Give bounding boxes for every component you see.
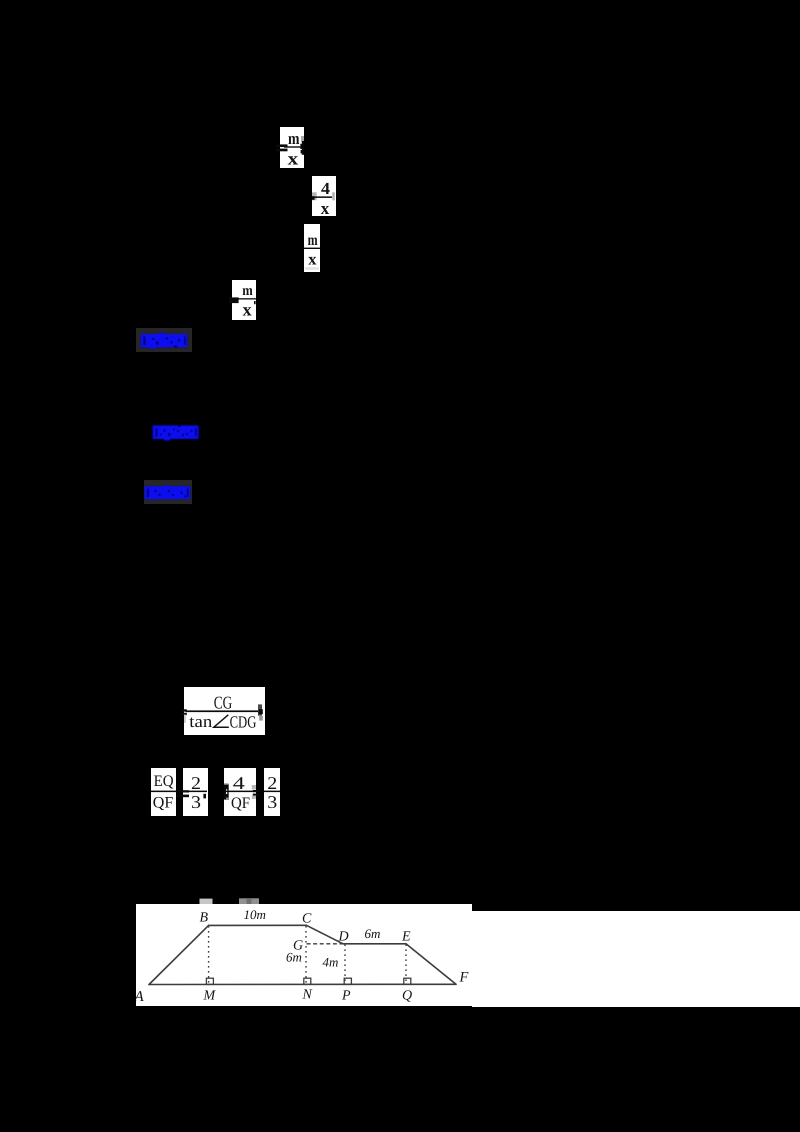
- svg-text:2: 2: [191, 773, 201, 793]
- fraction 2 side antialias marks: [312, 192, 317, 200]
- slant E-F: [406, 944, 456, 985]
- fraction 2 left black mark: [312, 196, 315, 200]
- fraction 1 bar: [284, 146, 303, 147]
- svg-text:F: F: [459, 970, 469, 986]
- fraction 1 right clipped glyph: [301, 136, 304, 142]
- svg-text:m: m: [308, 232, 319, 249]
- fraction 3 bar: [304, 248, 320, 249]
- fraction m/x (4) white box: [232, 280, 256, 320]
- fraction 4/x (2) white box: [312, 176, 336, 216]
- svg-text:Q: Q: [402, 989, 412, 1004]
- fraction m/x (3) white box: [304, 224, 320, 272]
- svg-text:EQ: EQ: [154, 773, 174, 790]
- svg-text:B: B: [200, 911, 209, 926]
- dark clipped glyph right edge of CG box: [258, 704, 262, 715]
- EQ/QF bar: [151, 791, 176, 793]
- right angle square at P: [344, 978, 351, 984]
- svg-text:QF: QF: [231, 795, 250, 812]
- svg-text:3: 3: [191, 792, 201, 812]
- light gray mark left edge below bar: [184, 715, 186, 723]
- svg-text:6m: 6m: [286, 950, 302, 965]
- fraction 1: equals sign: [276, 144, 288, 147]
- svg-text:tan: tan: [189, 712, 213, 731]
- 2/3 bar (a): [184, 791, 207, 793]
- highlight box for blue label 3: [144, 480, 192, 504]
- svg-text:M: M: [203, 989, 217, 1004]
- svg-text:4: 4: [321, 179, 331, 198]
- dotted C-N: [305, 926, 307, 984]
- angle symbol: [214, 715, 229, 727]
- svg-text:E: E: [401, 930, 411, 945]
- right angle square at Q: [404, 978, 411, 984]
- slant C-D: [306, 925, 343, 944]
- blue label 2: [152, 424, 204, 443]
- blue label 1: [140, 332, 192, 351]
- svg-text:4: 4: [233, 773, 245, 793]
- svg-text:D: D: [338, 930, 349, 945]
- dashed G-D: [307, 943, 343, 945]
- fraction 3 bottom faint band: [305, 267, 319, 270]
- svg-text:P: P: [341, 989, 351, 1004]
- 4/QF bar: [226, 791, 255, 793]
- fraction m/x (1) white box: [280, 127, 304, 168]
- svg-text:CDG: CDG: [230, 712, 257, 731]
- side A-B: [149, 925, 209, 984]
- geometry diagram white box: [136, 904, 472, 1006]
- svg-text:2: 2: [267, 773, 277, 793]
- blue label 3: [144, 485, 194, 502]
- svg-text:x: x: [288, 148, 299, 168]
- svg-text:C: C: [302, 912, 312, 927]
- svg-text:10m: 10m: [244, 907, 266, 922]
- fraction 4 bar: [239, 298, 257, 299]
- comma at right edge of box (a): [203, 794, 206, 799]
- CG fraction bar: [186, 710, 260, 712]
- top B-C: [209, 924, 307, 926]
- fraction 2 bar: [315, 196, 333, 198]
- svg-text:x: x: [243, 299, 252, 319]
- EQ/QF white box: [151, 768, 176, 816]
- equals at left edge of CG box: [182, 709, 187, 711]
- fraction 4: equals blob: [229, 297, 239, 303]
- 2/3 bar (c): [264, 791, 280, 793]
- white strip right of diagram: [472, 911, 800, 1007]
- highlight box for blue label 1: [136, 328, 192, 352]
- svg-text:m: m: [242, 283, 253, 299]
- right angle square at N: [304, 978, 311, 984]
- top D-E: [343, 943, 406, 945]
- geometry diagram: [136, 904, 472, 1006]
- svg-text:x: x: [321, 198, 330, 218]
- svg-text:QF: QF: [153, 795, 174, 812]
- svg-text:4m: 4m: [323, 955, 339, 970]
- dotted D-P: [344, 944, 346, 984]
- gray smudges above diagram top edge: [200, 899, 213, 904]
- svg-text:m: m: [288, 129, 300, 148]
- fraction 4 right tick: [254, 301, 256, 304]
- dotted B-M: [208, 926, 210, 984]
- svg-text:3: 3: [267, 792, 277, 812]
- dotted E-Q: [405, 944, 407, 984]
- equals at right edge of 4/QF box: [253, 790, 259, 792]
- 2/3 white box (first): [183, 768, 208, 816]
- equals overlapping first 2/3 box: [177, 790, 190, 792]
- svg-text:CG: CG: [214, 693, 233, 713]
- 4/QF white box: [224, 768, 256, 816]
- svg-text:x: x: [308, 250, 317, 269]
- baseline A-F: [149, 983, 456, 985]
- 2/3 white box (second): [264, 768, 280, 816]
- right angle square at M: [206, 978, 213, 984]
- svg-text:N: N: [302, 988, 313, 1003]
- svg-text:6m: 6m: [365, 926, 381, 941]
- clipped bold mark at left edge of 4/QF: [224, 784, 229, 800]
- CG/tan-angle-CDG white box: [184, 687, 265, 735]
- svg-text:A: A: [136, 989, 145, 1005]
